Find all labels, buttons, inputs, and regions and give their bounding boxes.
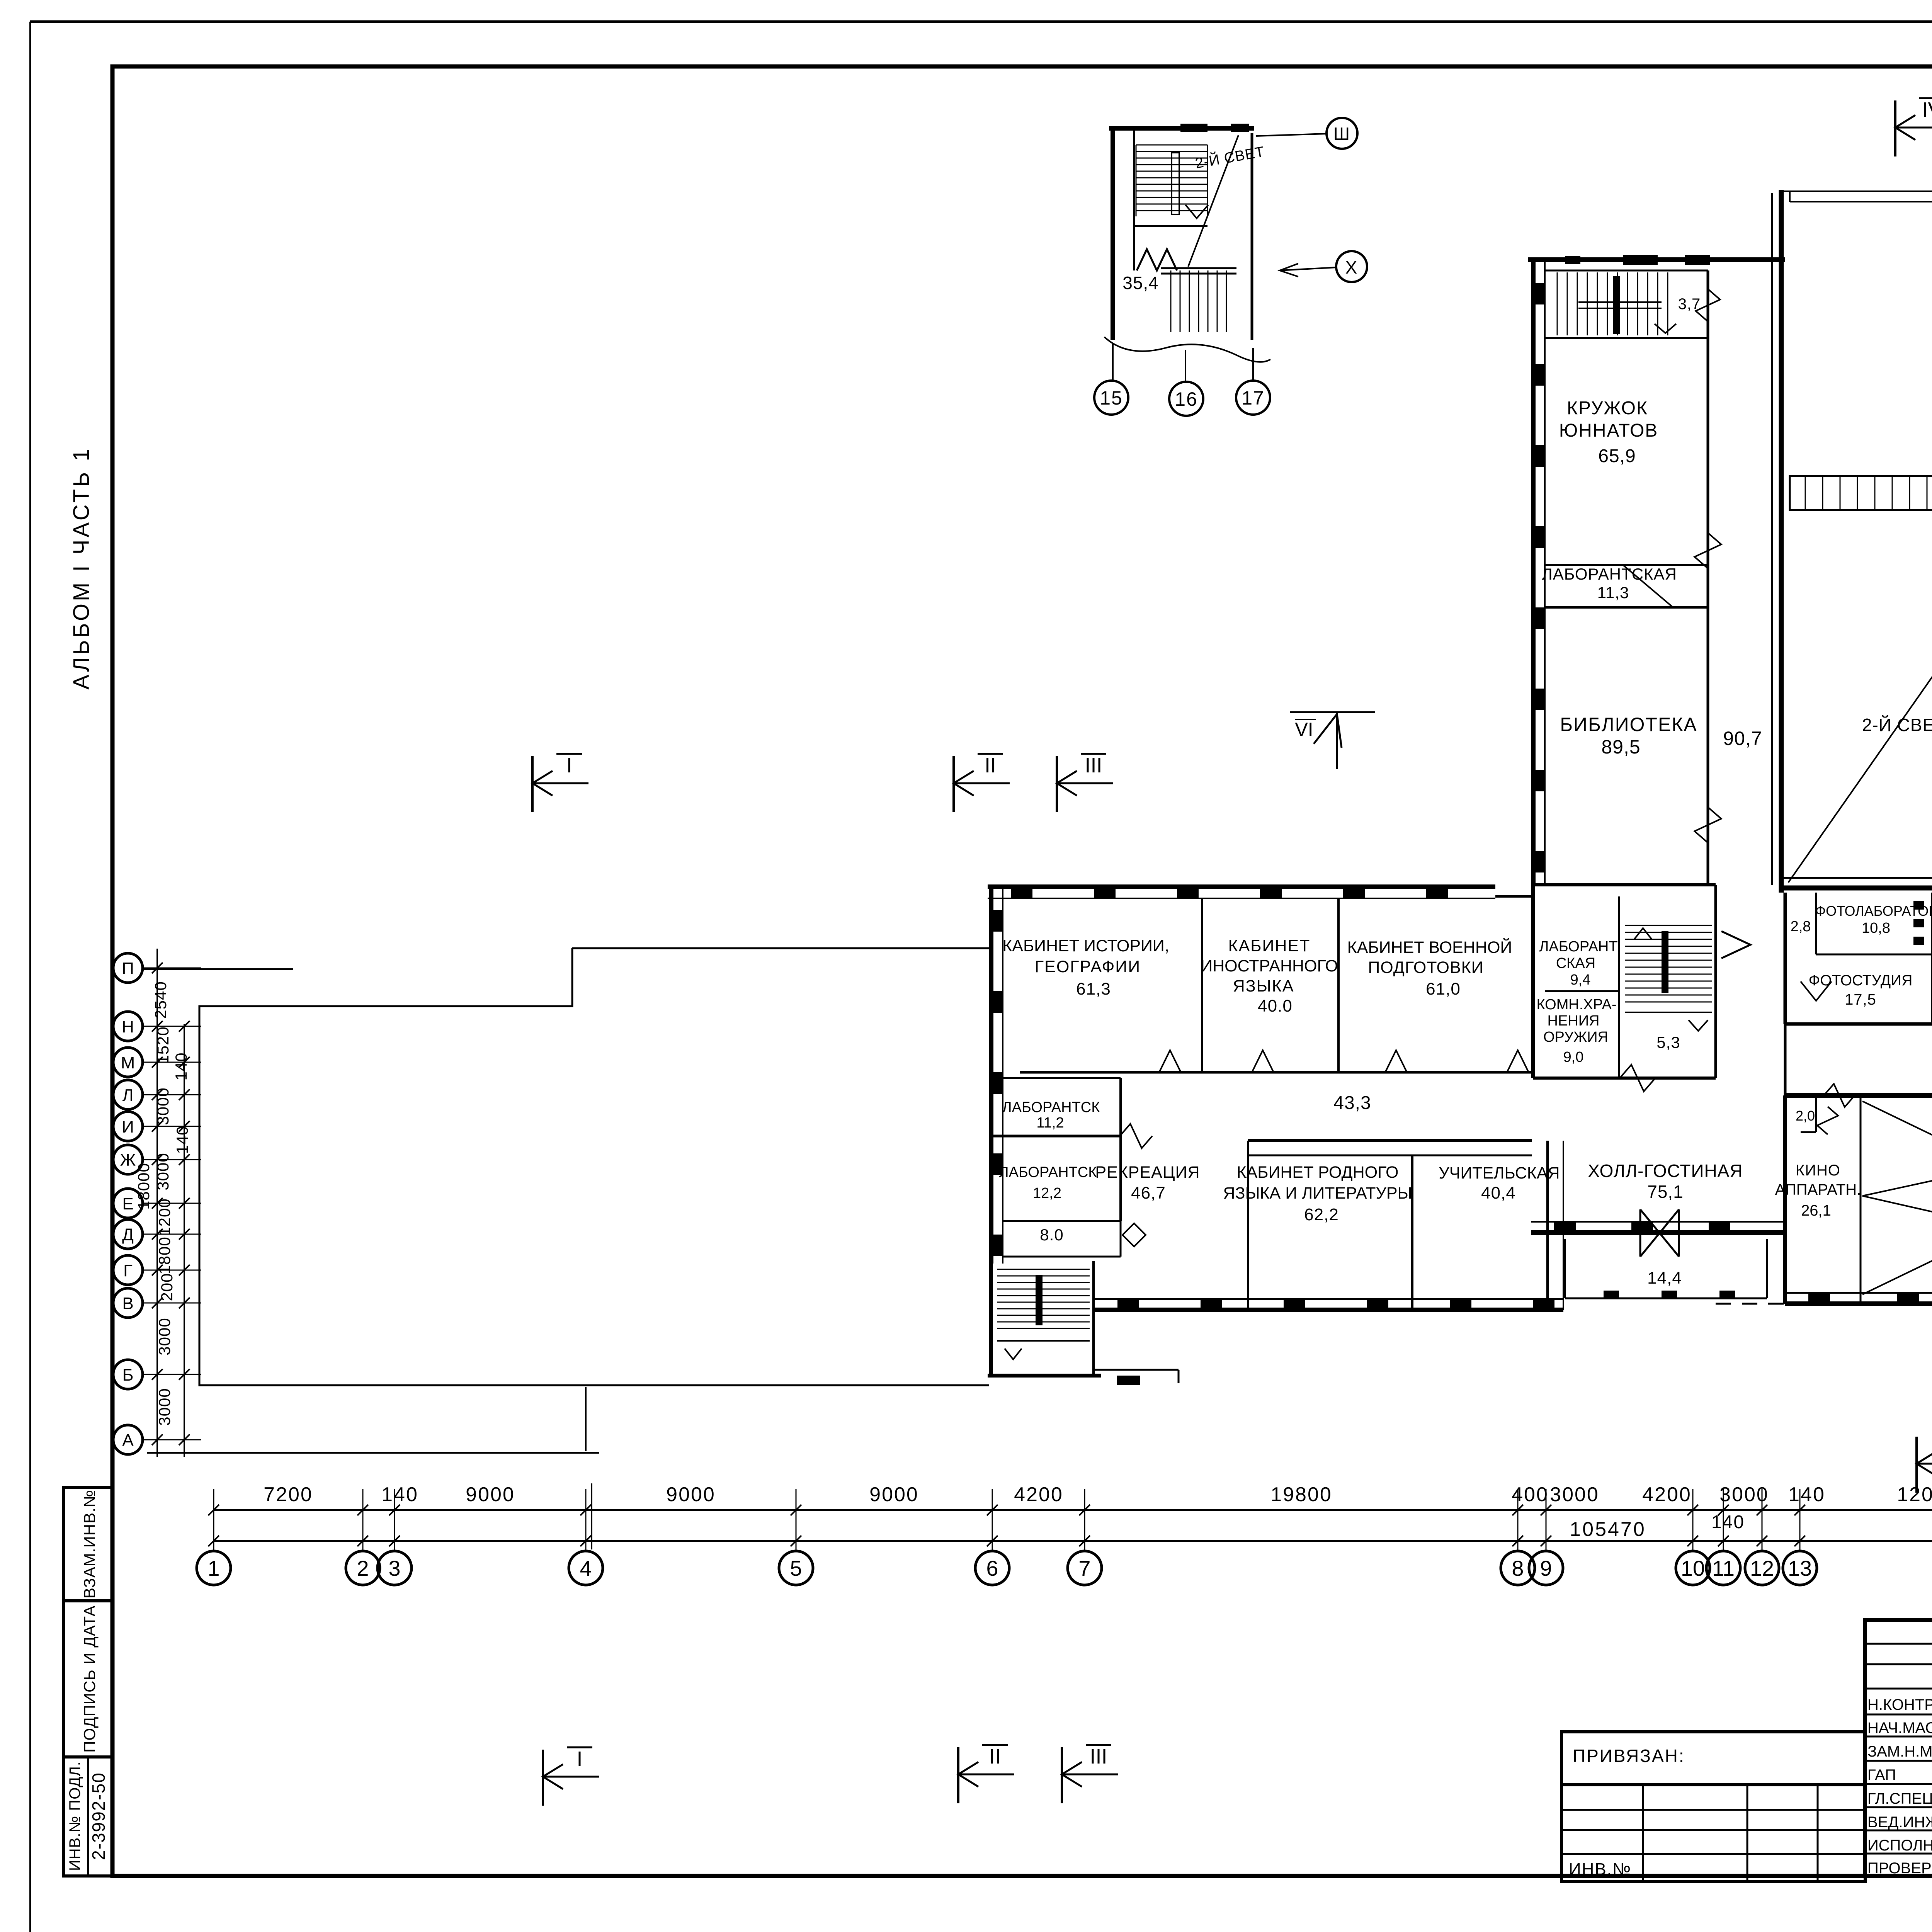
- svg-text:2,0: 2,0: [1796, 1108, 1815, 1124]
- partition library top: [1545, 565, 1708, 607]
- room label laborantsk 12,2: [999, 1164, 1097, 1201]
- stair 5,3 treads: [1625, 925, 1712, 1012]
- aktzal left partition: [1860, 1098, 1862, 1304]
- svg-text:ЯЗЫКА И ЛИТЕРАТУРЫ: ЯЗЫКА И ЛИТЕРАТУРЫ: [1223, 1184, 1412, 1202]
- svg-text:7: 7: [1078, 1556, 1090, 1580]
- laborantsk 12,2 walls: [1003, 1136, 1121, 1221]
- svg-text:ВЕД.ИНЖ: ВЕД.ИНЖ: [1867, 1814, 1932, 1831]
- svg-text:Х: Х: [1345, 257, 1358, 277]
- svg-text:3: 3: [388, 1556, 400, 1580]
- axis P stub line: [143, 968, 293, 970]
- classroom wing top wall: [988, 886, 1495, 899]
- sidebar text podpis: [80, 1605, 99, 1753]
- svg-text:III: III: [1085, 754, 1102, 777]
- svg-text:ЮННАТОВ: ЮННАТОВ: [1559, 420, 1658, 441]
- fragment leader 17: [1252, 348, 1254, 381]
- svg-text:ОРУЖИЯ: ОРУЖИЯ: [1543, 1029, 1608, 1045]
- svg-text:Ж: Ж: [120, 1151, 136, 1170]
- svg-text:I: I: [566, 754, 572, 777]
- svg-text:КАБИНЕТ ИСТОРИИ,: КАБИНЕТ ИСТОРИИ,: [1002, 937, 1169, 955]
- room label kino: [1775, 1162, 1861, 1219]
- svg-text:105470: 105470: [1570, 1518, 1646, 1541]
- sidebar text vzam: [80, 1490, 99, 1599]
- svg-text:I: I: [577, 1747, 582, 1770]
- svg-text:140: 140: [173, 1126, 191, 1154]
- svg-text:3000: 3000: [154, 1153, 172, 1190]
- fragment door M mark: [1137, 249, 1177, 270]
- svg-text:ИНОСТРАННОГО: ИНОСТРАННОГО: [1201, 957, 1338, 975]
- svg-text:1200: 1200: [155, 1198, 173, 1236]
- corridor wall pool to aktzal: [1784, 1024, 1787, 1095]
- room label inostr: [1201, 937, 1338, 1015]
- svg-text:35,4: 35,4: [1122, 273, 1159, 293]
- corridor doors top: [1159, 1050, 1529, 1072]
- svg-text:9000: 9000: [869, 1483, 919, 1506]
- svg-text:ПРОВЕРИЛ: ПРОВЕРИЛ: [1867, 1860, 1932, 1877]
- svg-text:1800: 1800: [155, 1236, 173, 1274]
- svg-text:ЛАБОРАНТСКАЯ: ЛАБОРАНТСКАЯ: [1542, 565, 1677, 583]
- svg-text:7200: 7200: [264, 1483, 313, 1506]
- svg-text:ИНВ.№ ПОДЛ.: ИНВ.№ ПОДЛ.: [66, 1761, 83, 1871]
- svg-text:61,0: 61,0: [1426, 980, 1461, 998]
- corridor break zigzag upper: [1695, 533, 1721, 843]
- svg-text:II: II: [989, 1745, 1001, 1768]
- section marker II top: [954, 754, 1010, 812]
- fragment bubble 17: [1236, 381, 1270, 415]
- classroom wing left wall: [990, 887, 1003, 1264]
- svg-text:1520: 1520: [154, 1026, 172, 1064]
- section marker III top: [1057, 754, 1113, 812]
- svg-text:75,1: 75,1: [1647, 1182, 1684, 1202]
- area 3,7: [1678, 296, 1701, 313]
- partition laborantskaya top: [1545, 564, 1708, 566]
- svg-text:ПОДГОТОВКИ: ПОДГОТОВКИ: [1368, 958, 1483, 977]
- svg-text:2-Й СВЕТ БАССЕЙНА: 2-Й СВЕТ БАССЕЙНА: [1862, 715, 1932, 735]
- fragment stair rails lower: [1161, 268, 1236, 332]
- svg-text:ПРИВЯЗАН:: ПРИВЯЗАН:: [1573, 1746, 1685, 1766]
- library wing left outer wall: [1532, 260, 1546, 885]
- svg-text:12,2: 12,2: [1033, 1185, 1061, 1201]
- label fotostudiya: [1809, 972, 1913, 1008]
- left axis bubbles: [113, 953, 143, 1454]
- svg-text:II: II: [985, 754, 996, 777]
- svg-text:11: 11: [1712, 1556, 1735, 1580]
- svg-text:Е: Е: [122, 1194, 133, 1213]
- svg-text:1: 1: [207, 1556, 219, 1580]
- fragment leader 15: [1112, 344, 1114, 381]
- svg-text:Н.КОНТР.: Н.КОНТР.: [1867, 1696, 1932, 1713]
- svg-text:В: В: [122, 1294, 133, 1313]
- svg-text:ФОТОСТУДИЯ: ФОТОСТУДИЯ: [1809, 972, 1913, 989]
- svg-text:10,8: 10,8: [1862, 920, 1890, 936]
- svg-text:АППАРАТН.: АППАРАТН.: [1775, 1181, 1861, 1198]
- svg-text:УЧИТЕЛЬСКАЯ: УЧИТЕЛЬСКАЯ: [1439, 1164, 1560, 1182]
- svg-text:14,4: 14,4: [1647, 1269, 1682, 1287]
- svg-text:ВЗАМ.ИНВ.№: ВЗАМ.ИНВ.№: [80, 1490, 99, 1599]
- porch bottom left: [1094, 1370, 1179, 1385]
- fragment stair treads upper: [1136, 145, 1207, 216]
- svg-text:Б: Б: [122, 1366, 134, 1384]
- svg-text:ЗАМ.Н.М.: ЗАМ.Н.М.: [1867, 1743, 1932, 1760]
- signature names: [1867, 1695, 1932, 1877]
- wing bottom junction wall: [1531, 883, 1716, 886]
- svg-text:11,2: 11,2: [1036, 1115, 1064, 1131]
- fragment area 35,4: [1122, 273, 1159, 293]
- pool balcony hatch band: [1790, 476, 1932, 510]
- svg-text:140: 140: [1788, 1483, 1825, 1506]
- stair 5,3 arrows: [1634, 928, 1708, 1031]
- svg-text:4200: 4200: [1014, 1483, 1063, 1506]
- room label laborantskaya 11,3: [1542, 565, 1677, 602]
- corridor label 90,7: [1723, 728, 1762, 749]
- svg-text:2: 2: [357, 1556, 369, 1580]
- svg-text:26,1: 26,1: [1801, 1202, 1831, 1219]
- axis 4 extension: [586, 1387, 592, 1549]
- svg-text:ПОДПИСЬ И ДАТА: ПОДПИСЬ И ДАТА: [80, 1605, 99, 1753]
- svg-text:9000: 9000: [666, 1483, 716, 1506]
- svg-text:БИБЛИОТЕКА: БИБЛИОТЕКА: [1560, 714, 1697, 735]
- svg-text:АЛЬБОМ I ЧАСТЬ 1: АЛЬБОМ I ЧАСТЬ 1: [69, 446, 94, 689]
- fragment outer walls: [1109, 128, 1254, 340]
- svg-text:11,3: 11,3: [1597, 583, 1629, 602]
- svg-text:19800: 19800: [1270, 1483, 1332, 1506]
- door zigzag wing stair: [1696, 289, 1720, 321]
- sidebar box: [64, 1487, 112, 1876]
- svg-text:3000: 3000: [155, 1388, 173, 1425]
- room label voennoy: [1347, 938, 1512, 998]
- holl bottom wall: [1531, 1221, 1785, 1233]
- svg-text:НАЧ.МАСТ.: НАЧ.МАСТ.: [1867, 1719, 1932, 1736]
- photo block left wall: [1784, 893, 1787, 1024]
- svg-text:ГЕОГРАФИИ: ГЕОГРАФИИ: [1035, 957, 1141, 976]
- room label 8,0: [1040, 1226, 1063, 1244]
- svg-text:3000: 3000: [155, 1318, 173, 1355]
- section marker VI mid: [1290, 712, 1375, 769]
- room label holl: [1588, 1161, 1743, 1202]
- svg-text:400: 400: [1512, 1483, 1549, 1506]
- svg-text:ИНВ.№: ИНВ.№: [1569, 1860, 1631, 1879]
- fragment bubble 16: [1169, 382, 1203, 416]
- svg-text:VI: VI: [1295, 719, 1313, 740]
- fragment window marks top: [1180, 124, 1249, 132]
- section marker III bottom: [1062, 1745, 1118, 1803]
- pool hall bottom wall: [1781, 878, 1932, 888]
- section marker IV bottom: [1917, 1434, 1932, 1493]
- svg-text:10: 10: [1681, 1556, 1705, 1580]
- svg-text:40,4: 40,4: [1481, 1184, 1516, 1202]
- left dimension numbers: [134, 981, 191, 1425]
- section marker II bottom: [958, 1745, 1014, 1803]
- svg-text:КАБИНЕТ: КАБИНЕТ: [1228, 937, 1311, 955]
- svg-text:ЛАБОРАНТ: ЛАБОРАНТ: [1539, 939, 1617, 955]
- stair 5,3 label: [1656, 1033, 1680, 1051]
- svg-text:ФОТОЛАБОРАТОР.: ФОТОЛАБОРАТОР.: [1815, 903, 1932, 919]
- axis A stub line: [147, 1452, 599, 1454]
- svg-text:4: 4: [580, 1556, 592, 1580]
- roof outline left block: [199, 948, 990, 1385]
- svg-text:12: 12: [1750, 1556, 1774, 1580]
- bottom dimension lines: [214, 1510, 1932, 1541]
- aktzal bottom wall: [1785, 1292, 1932, 1304]
- svg-text:5,3: 5,3: [1656, 1033, 1680, 1051]
- room label komn hraneniya: [1536, 997, 1616, 1065]
- laborantskaya 9,4 block walls: [1495, 885, 1619, 1078]
- svg-text:200: 200: [158, 1273, 176, 1301]
- svg-text:46,7: 46,7: [1131, 1184, 1166, 1202]
- aktzal top wall: [1785, 1082, 1932, 1109]
- bottom dimension numbers: [264, 1483, 1932, 1541]
- stair arrow top wing: [1655, 324, 1676, 333]
- svg-text:12000: 12000: [1897, 1483, 1932, 1506]
- svg-text:5: 5: [790, 1556, 802, 1580]
- bottom dimension ticks: [208, 1489, 1932, 1551]
- svg-text:Д: Д: [122, 1225, 134, 1244]
- fragment bubble 15: [1094, 381, 1128, 415]
- photo small fixtures: [1913, 896, 1932, 945]
- svg-text:140: 140: [381, 1483, 418, 1506]
- signature table grid: [1865, 1620, 1932, 1876]
- left dimension lines: [143, 949, 201, 1457]
- pool diagonal: [1788, 512, 1932, 883]
- dashed porch line: [1716, 1303, 1785, 1305]
- room label laborantsk 11,2: [1002, 1099, 1100, 1131]
- svg-text:8: 8: [1512, 1556, 1524, 1580]
- label fotolaborator: [1791, 903, 1932, 936]
- svg-text:9000: 9000: [466, 1483, 515, 1506]
- classroom partition 2: [1337, 898, 1340, 1072]
- svg-text:43,3: 43,3: [1333, 1093, 1371, 1113]
- small room 2,0: [1796, 1098, 1838, 1134]
- stair block bottom left: [991, 1261, 1094, 1376]
- fragment landing line: [1134, 225, 1207, 227]
- margin text album: [69, 446, 94, 689]
- svg-text:2,8: 2,8: [1791, 918, 1811, 935]
- photo partition fotolab: [1816, 893, 1932, 1024]
- stair rail top wing: [1578, 276, 1662, 334]
- section marker IV top: [1895, 98, 1932, 156]
- svg-text:ГАП: ГАП: [1867, 1767, 1896, 1784]
- kino block left wall: [1783, 1095, 1787, 1304]
- grid bubble X fragment: [1279, 251, 1367, 282]
- svg-text:3000: 3000: [154, 1087, 172, 1125]
- classroom wing bottom wall: [1094, 1298, 1563, 1311]
- svg-text:ГЛ.СПЕЦ.АР.: ГЛ.СПЕЦ.АР.: [1867, 1790, 1932, 1807]
- doors rekre: [1120, 1124, 1152, 1247]
- svg-text:61,3: 61,3: [1076, 980, 1111, 998]
- section marker I top: [532, 754, 588, 812]
- svg-text:18000: 18000: [134, 1163, 153, 1210]
- library corridor wall: [1707, 270, 1709, 885]
- svg-text:КРУЖОК: КРУЖОК: [1567, 398, 1648, 418]
- svg-text:140: 140: [1711, 1512, 1745, 1532]
- svg-text:И: И: [122, 1117, 134, 1136]
- svg-text:КАБИНЕТ РОДНОГО: КАБИНЕТ РОДНОГО: [1237, 1163, 1399, 1182]
- svg-text:13: 13: [1788, 1556, 1812, 1580]
- holl door X: [1640, 1209, 1679, 1257]
- lower rooms top wall: [991, 1136, 1532, 1310]
- stair 5,3 door: [1721, 931, 1750, 958]
- svg-text:6: 6: [986, 1556, 998, 1580]
- svg-text:17: 17: [1242, 387, 1265, 409]
- svg-text:ЛАБОРАНТСК: ЛАБОРАНТСК: [999, 1164, 1097, 1180]
- sidebar text inv: [66, 1761, 83, 1871]
- svg-text:3000: 3000: [1550, 1483, 1599, 1506]
- svg-text:ИСПОЛНИК: ИСПОЛНИК: [1867, 1837, 1932, 1854]
- pool roof outline top: [1781, 191, 1932, 202]
- room label istorii: [1002, 937, 1169, 998]
- pool hall label: [1862, 715, 1932, 735]
- sidebar text number: [88, 1772, 109, 1860]
- svg-text:НЕНИЯ: НЕНИЯ: [1548, 1013, 1600, 1029]
- fragment stair rail upper: [1172, 153, 1179, 214]
- svg-text:ХОЛЛ-ГОСТИНАЯ: ХОЛЛ-ГОСТИНАЯ: [1588, 1161, 1743, 1181]
- svg-text:9: 9: [1540, 1556, 1552, 1580]
- title block outline: [1865, 1620, 1932, 1876]
- svg-text:4200: 4200: [1642, 1483, 1692, 1506]
- fragment stair arrow: [1185, 205, 1208, 218]
- svg-text:8.0: 8.0: [1040, 1226, 1063, 1244]
- laborantsk 11,2 walls: [1003, 1078, 1121, 1136]
- stair treads top wing: [1557, 272, 1668, 335]
- grid bubble Sh fragment: [1256, 118, 1357, 149]
- room label uchitelskaya: [1439, 1164, 1560, 1202]
- privyazan table: [1561, 1732, 1865, 1881]
- library wing right wall: [1779, 190, 1784, 893]
- svg-text:Г: Г: [123, 1261, 133, 1280]
- photo doors: [1801, 938, 1932, 1001]
- svg-text:140: 140: [172, 1052, 190, 1080]
- svg-text:П: П: [122, 959, 134, 978]
- classroom corridor top wall: [1020, 1071, 1532, 1074]
- corridor label 43,3: [1333, 1093, 1371, 1113]
- svg-text:Л: Л: [122, 1086, 134, 1105]
- section marker I bottom: [543, 1747, 599, 1806]
- svg-text:89,5: 89,5: [1601, 736, 1640, 758]
- svg-text:9,0: 9,0: [1563, 1049, 1584, 1065]
- bottom axis bubbles 1-22: [197, 1551, 1932, 1585]
- svg-text:Ш: Ш: [1333, 124, 1350, 144]
- photo block bottom wall: [1785, 1022, 1932, 1026]
- svg-text:ЛАБОРАНТСК: ЛАБОРАНТСК: [1002, 1099, 1100, 1116]
- svg-text:65,9: 65,9: [1598, 446, 1636, 466]
- svg-text:2540: 2540: [151, 981, 170, 1019]
- stair room partition top wing: [1545, 337, 1708, 339]
- label 14,4: [1647, 1269, 1682, 1287]
- svg-text:40.0: 40.0: [1258, 997, 1293, 1015]
- aktzal X cross: [1862, 1101, 1932, 1294]
- svg-text:РЕКРЕАЦИЯ: РЕКРЕАЦИЯ: [1095, 1163, 1200, 1182]
- fragment break line: [1104, 337, 1270, 362]
- svg-text:ЯЗЫКА: ЯЗЫКА: [1233, 977, 1294, 995]
- room label kruzhok: [1559, 398, 1658, 466]
- svg-text:9,4: 9,4: [1570, 972, 1591, 988]
- svg-text:А: А: [122, 1431, 134, 1450]
- room label biblioteka: [1560, 714, 1697, 758]
- svg-text:16: 16: [1175, 388, 1198, 410]
- room label rekreatsiya: [1095, 1163, 1200, 1202]
- svg-text:М: М: [121, 1053, 135, 1072]
- fragment diagonal: [1188, 135, 1238, 267]
- svg-text:3000: 3000: [1719, 1483, 1769, 1506]
- svg-text:15: 15: [1100, 387, 1123, 409]
- svg-text:КОМН.ХРА-: КОМН.ХРА-: [1536, 997, 1616, 1013]
- stair block bottom wall: [988, 1374, 1101, 1378]
- classroom wing right wall: [1548, 1141, 1563, 1310]
- svg-text:IV: IV: [1922, 98, 1932, 121]
- svg-text:2-3992-50: 2-3992-50: [88, 1772, 109, 1860]
- partition rodnogo uchit: [1411, 1155, 1413, 1310]
- fragment leader 16: [1185, 350, 1186, 382]
- library wing top wall: [1528, 255, 1785, 270]
- svg-text:III: III: [1090, 1745, 1107, 1768]
- svg-text:17,5: 17,5: [1845, 991, 1876, 1008]
- svg-text:КИНО: КИНО: [1796, 1162, 1840, 1179]
- svg-text:КАБИНЕТ ВОЕННОЙ: КАБИНЕТ ВОЕННОЙ: [1347, 938, 1512, 957]
- room label rodnogo: [1223, 1163, 1412, 1224]
- classroom partition 1: [1201, 898, 1203, 1072]
- stair 5,3 walls: [1619, 885, 1716, 1078]
- fragment 2nd light label: [1194, 143, 1266, 172]
- svg-text:90,7: 90,7: [1723, 728, 1762, 749]
- svg-text:СКАЯ: СКАЯ: [1556, 955, 1595, 971]
- porch below holl: [1565, 1239, 1767, 1299]
- holl top access wall: [1533, 1065, 1716, 1092]
- room 8,0 walls: [1003, 1221, 1121, 1257]
- svg-text:62,2: 62,2: [1304, 1205, 1339, 1224]
- room label laborantskaya 9,4: [1539, 939, 1617, 988]
- svg-text:Н: Н: [122, 1017, 134, 1036]
- pool hall left wall: [1772, 193, 1781, 893]
